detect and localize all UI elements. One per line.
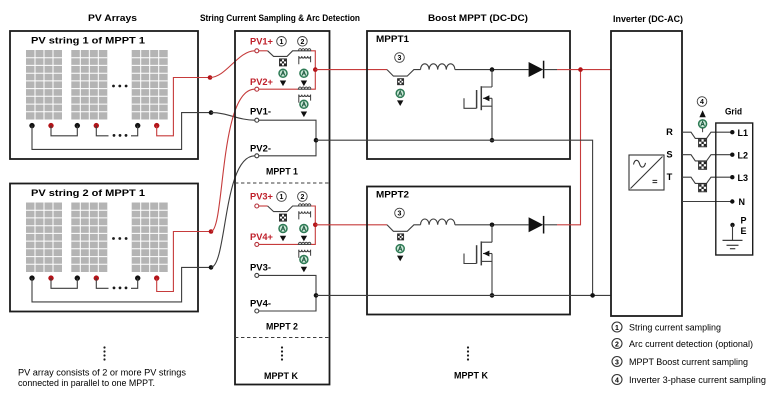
ammeter A1 (279, 69, 287, 77)
node N (730, 199, 734, 203)
wire: negative rail MPPT2 to inverter (316, 294, 611, 296)
wire phase R with sensor dip (682, 132, 732, 138)
callout 4 inverter sampling (697, 97, 707, 107)
svg-text:2: 2 (615, 341, 619, 348)
ammeter boost MPPT1 (396, 89, 404, 97)
ellipsis between panels string 1 (112, 85, 115, 88)
svg-text:PV2-: PV2- (250, 144, 271, 154)
terminal PV4- (255, 309, 259, 313)
current sensor dip boost MPPT1 (387, 70, 421, 77)
svg-text:PV3+: PV3+ (250, 192, 274, 202)
callout 3 boost MPPT2 (395, 208, 405, 218)
legend item 1 (612, 322, 622, 332)
PV panel B3 (132, 203, 168, 273)
svg-text:1: 1 (280, 39, 284, 46)
node: string 1 negative junction (209, 110, 214, 115)
node: panel terminals string 2 (29, 275, 34, 280)
wire: curve string2+ to PV2+ (211, 89, 255, 231)
node negative bus MPPT2 (314, 293, 319, 298)
terminal PV4+ (255, 242, 259, 246)
ellipsis on series link string 2 (113, 287, 116, 290)
wire: series link panel1-panel2 string 1 (51, 126, 77, 136)
phase S sensor core (699, 161, 707, 169)
terminal PV2+ (255, 87, 259, 91)
svg-text:PV array consists of 2 or more: PV array consists of 2 or more PV string… (18, 368, 187, 378)
wire PV3+ red stub (259, 205, 268, 207)
arrow A5 (301, 236, 307, 242)
wire phase S with sensor dip (682, 155, 732, 161)
svg-text:E: E (741, 226, 747, 236)
wire PV4- to bus (259, 295, 316, 311)
svg-text:2: 2 (300, 39, 304, 46)
boost MPPT2 box (367, 187, 570, 315)
wire diode to box edge MPPT2 (544, 224, 557, 226)
node positive bus MPPT1 (313, 67, 318, 72)
node PE (730, 223, 734, 227)
wire PV4+ red (259, 243, 298, 245)
svg-text:3: 3 (615, 359, 619, 366)
svg-text:4: 4 (615, 377, 619, 384)
wire: series link panel1-panel2 string 2 (51, 278, 77, 288)
ground (723, 225, 743, 249)
svg-text:3: 3 (398, 211, 402, 218)
svg-text:String current sampling: String current sampling (629, 323, 721, 333)
wire: red link sampling to boost MPPT2 (315, 224, 387, 226)
wire: negative rail MPPT1 (316, 140, 593, 295)
svg-text:T: T (667, 172, 673, 182)
wire: red DC bus MPPT1 to inverter (570, 69, 611, 71)
svg-text:L1: L1 (738, 128, 749, 138)
callout 2 (arc detection) MPPT1 group (298, 37, 308, 47)
wire: curve string1+ to PV1+ (210, 51, 255, 78)
PV panel B1 (26, 203, 62, 273)
svg-text:PV Arrays: PV Arrays (88, 13, 137, 23)
arrow up inverter sensor (699, 110, 705, 117)
wire: string 1 negative output (32, 113, 211, 150)
arrow A1 (280, 81, 286, 87)
stem ammeter to phase R (702, 128, 704, 132)
node positive bus MPPT2 (313, 223, 318, 228)
wire PV4+ to bus (311, 225, 315, 245)
svg-text:MPPT 2: MPPT 2 (266, 322, 298, 332)
svg-text:2: 2 (300, 194, 304, 201)
PV string 2 box (10, 184, 198, 312)
node: panel terminals string 1 (29, 123, 34, 128)
callout 1 (string sampling) MPPT1 group (277, 37, 287, 47)
ammeter inverter (699, 120, 707, 128)
node drain junction MPPT1 (490, 67, 495, 72)
svg-text:L3: L3 (738, 173, 749, 183)
current sensor CT1 dip on PV1+ (268, 51, 311, 57)
inverter U1 symbol (629, 155, 664, 190)
PV panel B2 (71, 203, 107, 273)
arrow A4 (280, 236, 286, 242)
wire PV1+ to bus (311, 51, 315, 70)
ammeter A4 (279, 225, 287, 233)
arrow boost MPPT1 (397, 100, 403, 106)
inductor L2 (420, 219, 454, 225)
node red DC bus junction (578, 67, 583, 72)
ellipsis on series link string 1 (113, 134, 116, 137)
diode D1 (529, 62, 544, 77)
svg-text:PV4-: PV4- (250, 299, 271, 309)
wire: string 2 positive output (157, 232, 211, 292)
svg-text:4: 4 (700, 99, 704, 106)
current sensor CT1 core (280, 59, 287, 66)
wire: string 1 positive output (157, 78, 210, 136)
svg-text:MPPT 1: MPPT 1 (266, 167, 298, 177)
svg-text:MPPT2: MPPT2 (376, 190, 409, 200)
PV panel A3 (132, 50, 168, 120)
arc sensor coil T4 on PV4+ (298, 243, 311, 245)
svg-text:String Current Sampling & Arc: String Current Sampling & Arc Detection (200, 13, 360, 23)
arrow boost MPPT2 (397, 256, 403, 262)
wire PV3- to bus (259, 275, 316, 295)
svg-text:connected in parallel to one M: connected in parallel to one MPPT. (18, 378, 155, 388)
ammeter A6 (300, 256, 308, 264)
arc sensor coil T3 on PV3+ (299, 204, 311, 220)
terminal PV2- (255, 154, 259, 158)
ammeter A3 (300, 100, 308, 108)
node source junction MPPT1 (490, 138, 495, 143)
wire PV1+ red stub (259, 50, 268, 52)
wire: curve string1- to PV1- (211, 113, 255, 121)
wire inductor to diode MPPT2 (455, 224, 529, 226)
wire: series link panel2-panel3 string 1 (96, 126, 137, 136)
ammeter boost MPPT2 (396, 245, 404, 253)
PV panel A2 (71, 50, 107, 120)
wire: curve string2- to PV2- (211, 156, 255, 268)
grid box (716, 123, 753, 255)
arrow A2 (301, 81, 307, 87)
svg-text:P: P (741, 216, 747, 226)
callout 2 (arc detection) MPPT2 group (298, 192, 308, 202)
svg-text:PV3-: PV3- (250, 263, 271, 273)
svg-text:1: 1 (615, 325, 619, 332)
inductor L1 (420, 64, 454, 70)
node drain junction MPPT2 (490, 223, 495, 228)
legend item 4 (612, 375, 622, 385)
wire PV3+ to bus (311, 206, 315, 225)
phase R sensor core (699, 139, 707, 147)
wire diode to box edge MPPT1 (544, 69, 557, 71)
wire: string 2 negative output (32, 267, 211, 302)
svg-text:L2: L2 (738, 150, 749, 160)
node L2 (730, 153, 734, 157)
PV panel A1 (26, 50, 62, 120)
arc sensor coil T1 on PV1+ (299, 49, 311, 65)
terminal PV3+ (255, 204, 259, 208)
phase T sensor core (699, 184, 707, 192)
sampling box (235, 31, 330, 385)
svg-text:PV1+: PV1+ (250, 36, 274, 46)
svg-text:PV string 2 of MPPT 1: PV string 2 of MPPT 1 (31, 188, 145, 198)
svg-text:Boost MPPT (DC-DC): Boost MPPT (DC-DC) (428, 13, 528, 23)
wire PV2- to bus (259, 140, 316, 156)
vertical ellipsis below MPPT2 (467, 346, 469, 348)
current sensor CT2 dip on PV3+ (268, 206, 311, 212)
svg-text:S: S (666, 149, 672, 159)
node negative bus MPPT1 (314, 138, 319, 143)
wire PV2+ to bus (311, 70, 315, 90)
svg-text:PV4+: PV4+ (250, 232, 274, 242)
svg-text:Grid: Grid (725, 107, 742, 117)
current sensor core boost MPPT2 (398, 234, 404, 240)
wire neutral N (682, 201, 732, 203)
terminal PV1+ (255, 49, 259, 53)
svg-text:MPPT1: MPPT1 (376, 34, 409, 44)
wire PV2+ red (259, 88, 298, 90)
wire PV1- to bus (259, 120, 316, 140)
boost MPPT1 box (367, 31, 570, 159)
ammeter A2 (300, 69, 308, 77)
transistor Q1 (MOSFET) (464, 70, 492, 141)
diode D2 (529, 217, 544, 232)
svg-text:PV1-: PV1- (250, 107, 271, 117)
node L1 (730, 130, 734, 134)
wire: red DC bus vertical (570, 70, 581, 225)
svg-text:PV string 1 of MPPT 1: PV string 1 of MPPT 1 (31, 36, 145, 46)
svg-text:MPPT K: MPPT K (264, 371, 298, 381)
dashed divider 2 (235, 337, 330, 339)
callout 3 boost MPPT1 (395, 53, 405, 63)
current sensor core boost MPPT1 (398, 79, 404, 85)
node: string 2 negative junction (209, 265, 214, 270)
node source junction MPPT2 (490, 293, 495, 298)
inverter DC dash (653, 180, 658, 182)
vertical ellipsis sampling box (281, 346, 283, 348)
legend item 3 (612, 357, 622, 367)
ammeter A5 (300, 225, 308, 233)
svg-text:1: 1 (280, 194, 284, 201)
terminal PV3- (255, 273, 259, 277)
vertical ellipsis below PV string 2 box (103, 346, 105, 348)
ellipsis between panels string 2 (112, 237, 115, 240)
node L3 (730, 175, 734, 179)
node negative bus junction (590, 293, 595, 298)
current sensor dip boost MPPT2 (387, 225, 421, 232)
inverter box (611, 31, 682, 316)
dashed divider 1 (235, 182, 330, 184)
svg-text:MPPT Boost current sampling: MPPT Boost current sampling (629, 357, 748, 367)
node: string 2 positive junction (209, 229, 214, 234)
arrow A6 (301, 267, 307, 273)
svg-text:R: R (666, 127, 673, 137)
svg-text:3: 3 (398, 55, 402, 62)
terminal PV1- (255, 118, 259, 122)
callout 1 (string sampling) MPPT2 group (277, 192, 287, 202)
svg-text:Inverter (DC-AC): Inverter (DC-AC) (613, 14, 683, 24)
PV string 1 box (10, 31, 198, 159)
svg-text:N: N (739, 197, 746, 207)
svg-text:MPPT K: MPPT K (454, 371, 488, 381)
node: string 1 positive junction (208, 75, 213, 80)
wire inductor to diode MPPT1 (455, 69, 529, 71)
wire phase T with sensor dip (682, 177, 732, 183)
transistor Q1 body arrow (483, 95, 489, 101)
current sensor CT2 core (280, 214, 287, 221)
wire: series link panel2-panel3 string 2 (96, 278, 137, 288)
svg-text:Inverter 3-phase current sampl: Inverter 3-phase current sampling (629, 375, 766, 385)
transistor Q2 (MOSFET) (464, 225, 492, 296)
svg-text:Arc current detection (optiona: Arc current detection (optional) (629, 339, 753, 349)
arc sensor coil T2 on PV2+ (298, 88, 311, 90)
legend item 2 (612, 339, 622, 349)
wire: red link sampling to boost MPPT1 (315, 69, 387, 71)
svg-text:PV2+: PV2+ (250, 77, 274, 87)
arrow A3 (301, 112, 307, 118)
transistor Q2 body arrow (483, 251, 489, 257)
